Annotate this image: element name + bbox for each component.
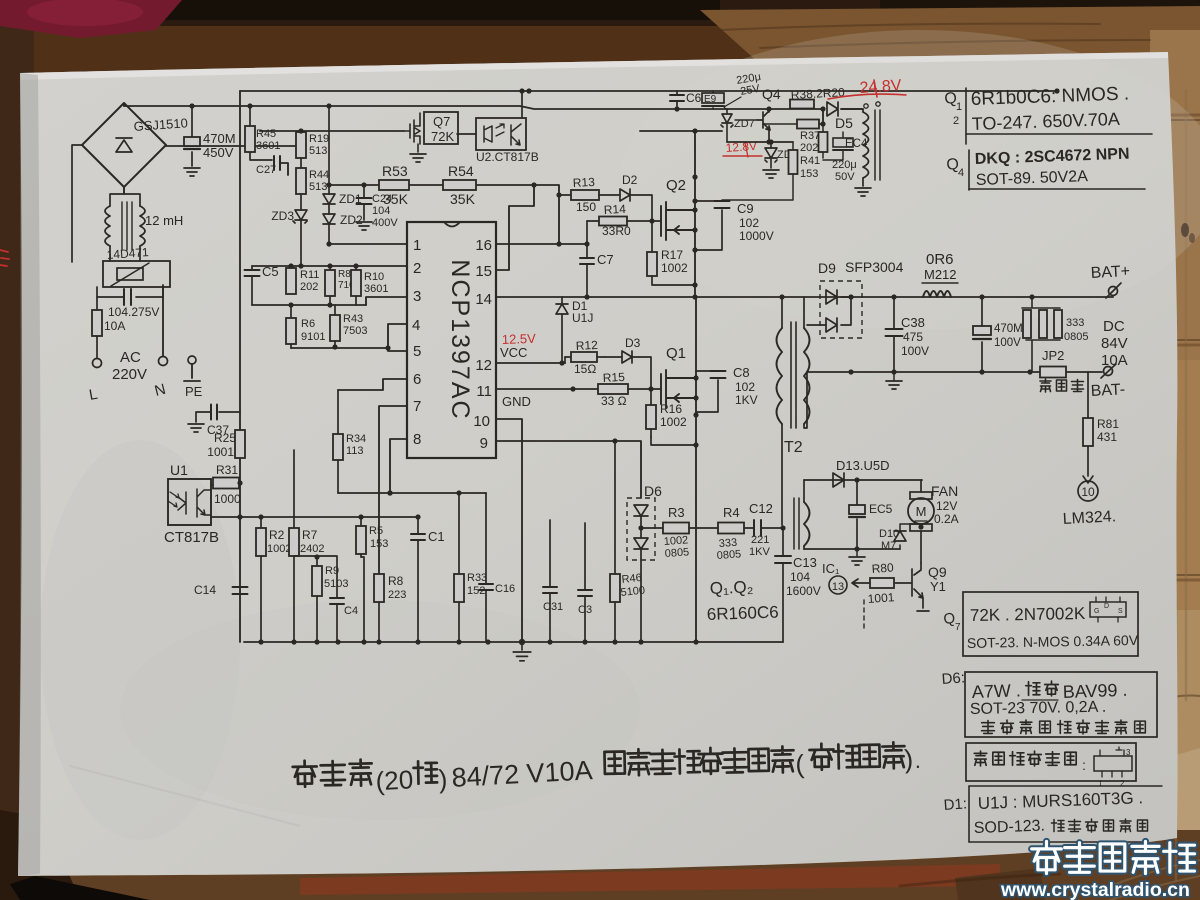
svg-text:IC₁: IC₁ — [822, 561, 840, 576]
svg-text:333: 333 — [1066, 317, 1084, 329]
resistor R19 — [300, 131, 302, 132]
svg-text:R5: R5 — [369, 525, 383, 537]
svg-text:513: 513 — [309, 145, 327, 157]
elco EC5 — [856, 480, 858, 549]
svg-text:CT817B: CT817B — [164, 529, 219, 546]
svg-text:R34: R34 — [346, 433, 366, 445]
resistor R15 — [598, 384, 628, 394]
svg-text:T2: T2 — [784, 439, 803, 456]
ground fan — [856, 549, 858, 556]
capacitor C37 with ground — [196, 412, 240, 422]
svg-text:2402: 2402 — [300, 543, 324, 555]
svg-text:D2: D2 — [622, 173, 638, 187]
svg-text:102: 102 — [739, 216, 759, 230]
svg-text:R37: R37 — [800, 130, 820, 142]
svg-text:C12: C12 — [749, 501, 773, 516]
svg-text:C14: C14 — [194, 583, 216, 597]
resistor R37 — [822, 109, 824, 132]
svg-text:0R6: 0R6 — [926, 251, 954, 268]
transformer T2 secondary — [804, 328, 810, 424]
terminal L — [93, 359, 102, 368]
resistor R6 — [290, 305, 292, 348]
wire pin5 rail y347 — [291, 347, 388, 349]
svg-text:0.2A: 0.2A — [934, 512, 959, 526]
svg-text:Y1: Y1 — [930, 579, 946, 594]
diode D1 U1J bootstrap — [561, 297, 563, 304]
svg-text:0805: 0805 — [1064, 331, 1088, 343]
svg-text:E9: E9 — [704, 94, 717, 105]
svg-text:M: M — [916, 504, 927, 519]
svg-text:202: 202 — [800, 142, 818, 154]
svg-text:14: 14 — [475, 291, 492, 308]
resistor R5 — [360, 517, 362, 557]
svg-text:202: 202 — [300, 281, 318, 293]
elco EC9 — [712, 91, 714, 109]
svg-text:VCC: VCC — [500, 345, 527, 360]
svg-text:1002: 1002 — [267, 543, 291, 555]
resistor R80 — [894, 582, 896, 584]
svg-text:6: 6 — [413, 371, 421, 388]
svg-text:U1: U1 — [170, 462, 188, 478]
svg-text:3601: 3601 — [364, 283, 388, 295]
svg-text:EC5: EC5 — [869, 502, 893, 516]
resistor R43 — [334, 305, 336, 347]
resistor R46 — [614, 441, 616, 642]
wire bridge out y147 — [166, 145, 301, 147]
capacitor C9 — [695, 201, 722, 250]
common-mode choke 12mH — [105, 206, 145, 246]
capacitor C24 with ground — [363, 185, 365, 220]
svg-text:R38.2R20: R38.2R20 — [790, 85, 845, 102]
zener ZD1 — [328, 106, 330, 194]
resistor R2 — [260, 517, 262, 642]
svg-text:BAT+: BAT+ — [1090, 263, 1130, 282]
zener ZD7 — [726, 109, 728, 114]
svg-text:13: 13 — [832, 581, 844, 593]
svg-text:10: 10 — [1081, 485, 1095, 499]
svg-text:12V: 12V — [936, 499, 957, 513]
svg-text:R54: R54 — [448, 163, 474, 179]
wire ground bus — [244, 641, 783, 643]
capacitor C1 — [417, 517, 419, 642]
svg-text:221: 221 — [751, 534, 769, 546]
resistor R44 — [300, 158, 302, 168]
svg-text:104.275V: 104.275V — [108, 305, 159, 319]
svg-text:): ) — [904, 744, 914, 774]
capacitor C6 — [676, 91, 678, 109]
svg-text:9: 9 — [480, 435, 488, 452]
svg-text:1002: 1002 — [660, 415, 687, 429]
svg-text:C13: C13 — [793, 555, 817, 570]
diode D5 — [827, 102, 838, 116]
svg-text:R45: R45 — [256, 128, 276, 140]
svg-text:12: 12 — [475, 357, 492, 374]
svg-text:1: 1 — [413, 237, 421, 254]
capacitor 470M/450V (bulk) — [191, 106, 193, 166]
svg-text:GND: GND — [502, 394, 531, 409]
capacitor C13 — [782, 528, 784, 642]
svg-text:C31: C31 — [543, 601, 563, 613]
svg-text:35K: 35K — [383, 191, 409, 207]
svg-text:D10: D10 — [879, 528, 899, 540]
svg-text:SOT-23. N-MOS 0.34A 60V: SOT-23. N-MOS 0.34A 60V — [967, 632, 1139, 651]
svg-text:431: 431 — [1097, 430, 1117, 444]
svg-text:DC: DC — [1103, 318, 1125, 335]
svg-text:1001: 1001 — [867, 590, 895, 606]
svg-text:R8: R8 — [388, 574, 404, 588]
svg-text:11: 11 — [476, 383, 492, 400]
svg-text:PE: PE — [185, 384, 203, 399]
jumper JP2 — [1040, 367, 1066, 378]
svg-text:M212: M212 — [924, 267, 957, 282]
svg-text:5: 5 — [413, 343, 421, 360]
wire Q1 drain-source — [695, 297, 697, 642]
resistor R41 — [792, 142, 794, 150]
note D6 desc hanzi — [982, 721, 995, 734]
wire fan rail top — [804, 479, 922, 481]
svg-text:S: S — [1118, 608, 1123, 615]
resistor R33 — [458, 493, 460, 642]
svg-text:C27: C27 — [256, 164, 276, 176]
svg-text:153: 153 — [370, 538, 388, 550]
ground below C38 — [893, 372, 895, 380]
svg-text:Q7: Q7 — [433, 114, 450, 129]
svg-text:Q4: Q4 — [762, 86, 781, 102]
svg-text:ZD7: ZD7 — [734, 118, 755, 130]
resistor R54 — [443, 180, 476, 190]
capacitor C16 — [485, 493, 487, 642]
svg-text:7: 7 — [413, 398, 421, 415]
svg-text:(20: (20 — [375, 764, 414, 796]
transformer T2 core — [791, 322, 796, 428]
svg-text:2: 2 — [413, 260, 421, 277]
svg-text:450V: 450V — [203, 145, 234, 160]
capacitor C27 — [274, 156, 280, 170]
resistor R16 — [650, 389, 652, 437]
svg-text:16: 16 — [475, 237, 492, 254]
svg-text:R46: R46 — [621, 572, 642, 586]
aux transformer winding — [863, 112, 869, 178]
svg-text:ZD3: ZD3 — [271, 209, 294, 223]
resistor R25 — [235, 430, 245, 458]
svg-text:100V: 100V — [901, 344, 929, 358]
svg-text:12.5V: 12.5V — [502, 331, 537, 347]
resistor R34 — [337, 390, 339, 493]
svg-text:C8: C8 — [733, 365, 750, 380]
svg-text:150: 150 — [576, 200, 596, 214]
svg-text:15Ω: 15Ω — [574, 362, 596, 376]
svg-text:R31: R31 — [216, 463, 238, 477]
transistor Q9 — [896, 563, 929, 611]
wire output return rail — [807, 371, 1102, 373]
transformer T2 aux winding — [804, 502, 810, 546]
svg-text:12 mH: 12 mH — [145, 213, 183, 228]
svg-text:SFP3004: SFP3004 — [845, 259, 904, 275]
svg-text:SOD-123.: SOD-123. — [974, 818, 1046, 837]
resistor R10 — [355, 266, 357, 305]
capacitor C4 — [336, 557, 338, 642]
capacitor C31 — [549, 520, 551, 642]
svg-text:Q₁.Q₂: Q₁.Q₂ — [709, 577, 753, 598]
title text — [292, 742, 921, 798]
transistor Q4 — [757, 109, 770, 142]
resistor R88 — [329, 266, 331, 305]
capacitor C5 — [251, 266, 253, 305]
node IC1 pin 13 — [829, 576, 847, 594]
svg-text:33 Ω: 33 Ω — [601, 394, 627, 408]
svg-text:R17: R17 — [661, 248, 683, 262]
svg-text:Q9: Q9 — [928, 564, 947, 580]
svg-text:R3: R3 — [668, 505, 685, 520]
svg-text:33R0: 33R0 — [602, 224, 631, 238]
svg-text:R12: R12 — [575, 338, 598, 353]
rectifier D9 SFP3004 — [820, 281, 862, 338]
elco EC4 — [822, 152, 824, 158]
svg-text:104: 104 — [790, 570, 810, 584]
resistor R45 — [250, 106, 272, 160]
svg-text:D1:: D1: — [943, 795, 967, 814]
svg-text:15: 15 — [475, 263, 492, 280]
capacitor C3 — [584, 523, 586, 642]
svg-text:R53: R53 — [382, 163, 408, 179]
svg-text:R41: R41 — [800, 155, 820, 167]
mosfet Q7 with box — [424, 112, 458, 144]
resistor R8 — [378, 574, 380, 642]
varistor 14D471 — [103, 261, 170, 287]
svg-text:JP2: JP2 — [1042, 348, 1064, 363]
svg-text:A7W .: A7W . — [971, 680, 1021, 702]
svg-text:M7: M7 — [881, 540, 896, 552]
node 10 to LM324 — [1083, 476, 1093, 483]
svg-text:D3: D3 — [625, 336, 641, 350]
svg-text:R14: R14 — [603, 202, 626, 217]
svg-text:R10: R10 — [364, 271, 384, 283]
wire mid rail — [496, 296, 1113, 298]
svg-text:R6: R6 — [301, 318, 315, 330]
fan motor M — [920, 480, 922, 492]
svg-text:D9: D9 — [818, 260, 836, 276]
wire upper rail — [124, 106, 823, 109]
svg-text:1KV: 1KV — [735, 393, 758, 407]
optocoupler U1 CT817B — [168, 479, 211, 525]
svg-text:4: 4 — [412, 317, 420, 334]
zener ZD2 — [323, 214, 335, 224]
zener ZD3 — [300, 194, 302, 210]
zener ZD4 — [770, 142, 772, 148]
svg-text:470M: 470M — [994, 323, 1023, 335]
diode D3 — [605, 356, 622, 358]
svg-text:220V: 220V — [112, 366, 147, 383]
svg-text:R25: R25 — [214, 431, 236, 445]
svg-text:400V: 400V — [372, 217, 398, 229]
svg-text:513: 513 — [309, 181, 327, 193]
ground main — [521, 642, 523, 650]
elco 470M/100V output — [981, 297, 983, 372]
svg-text:D5: D5 — [835, 115, 853, 131]
svg-text:72K: 72K — [431, 129, 454, 144]
resistor R14 — [587, 220, 599, 222]
capacitor C14 — [233, 587, 248, 594]
svg-text:84V: 84V — [1101, 335, 1128, 352]
svg-text:R15: R15 — [602, 370, 625, 385]
resistor R53 — [379, 180, 409, 190]
svg-text:1002: 1002 — [661, 261, 688, 275]
svg-text:100V: 100V — [994, 337, 1021, 349]
resistor R3 — [641, 527, 663, 529]
svg-text:0805: 0805 — [716, 548, 741, 562]
svg-text:1001: 1001 — [207, 445, 234, 459]
svg-text:AC: AC — [120, 349, 141, 366]
resistor R12 — [565, 356, 571, 358]
svg-text:8: 8 — [413, 431, 421, 448]
svg-text:C9: C9 — [737, 201, 754, 216]
svg-text:FAN: FAN — [931, 483, 958, 499]
svg-text:U2.CT817B: U2.CT817B — [476, 150, 539, 164]
wire left bus — [239, 91, 241, 642]
wire top rail — [240, 90, 1057, 92]
svg-text:0805: 0805 — [664, 546, 689, 560]
resistor R38 — [790, 100, 814, 109]
svg-text:SOT-23 70V. 0,2A .: SOT-23 70V. 0,2A . — [970, 699, 1107, 718]
svg-text:35K: 35K — [450, 191, 476, 207]
wire node y305 — [252, 304, 366, 306]
svg-text:1: 1 — [956, 101, 962, 113]
svg-text:R2: R2 — [269, 528, 285, 542]
diode D2 — [599, 194, 620, 196]
svg-text:C7: C7 — [597, 252, 614, 267]
svg-text:3: 3 — [413, 288, 421, 305]
diode D13 — [833, 473, 844, 487]
inductor 0R6 M212 — [923, 291, 951, 297]
svg-text:R19: R19 — [309, 133, 329, 145]
svg-text:C3: C3 — [578, 604, 592, 616]
svg-text:D13.U5D: D13.U5D — [836, 458, 889, 473]
svg-text:C1: C1 — [428, 529, 445, 544]
resistor R9 — [316, 557, 318, 642]
wire node y493 — [338, 492, 486, 494]
svg-text:BAT-: BAT- — [1090, 381, 1125, 400]
svg-text:1000: 1000 — [214, 492, 241, 506]
svg-text:3: 3 — [1126, 748, 1131, 757]
wire Q2 drain — [694, 131, 696, 297]
svg-text:7503: 7503 — [343, 325, 367, 337]
resistor R11 — [286, 268, 296, 294]
resistor R20 — [763, 123, 797, 125]
ic U3 NCP1397AC body — [444, 222, 460, 227]
svg-text:NCP1397AC: NCP1397AC — [446, 259, 474, 420]
X-capacitor 104/275V — [97, 287, 163, 297]
svg-text:10A: 10A — [104, 319, 125, 333]
svg-text:1600V: 1600V — [786, 584, 821, 598]
svg-text:C38: C38 — [901, 315, 925, 330]
mosfet Q1 — [661, 370, 696, 408]
resistor R4 — [689, 527, 718, 529]
resistor R13 — [559, 194, 571, 196]
red cloth top-left corner — [0, 0, 182, 38]
paper shading — [20, 52, 1168, 80]
svg-text:LM324.: LM324. — [1062, 508, 1116, 528]
svg-text:U1J: U1J — [572, 311, 593, 325]
svg-text:D: D — [1104, 603, 1109, 610]
diode D10 — [899, 545, 901, 549]
capacitor C8 — [696, 371, 718, 412]
wire emitter node y142 — [727, 141, 793, 143]
svg-text:Q2: Q2 — [666, 177, 686, 194]
watermark crystalradio — [1032, 841, 1062, 873]
svg-text:R81: R81 — [1097, 417, 1119, 431]
svg-text:www.crystalradio.cn: www.crystalradio.cn — [1000, 879, 1190, 900]
label kangtongsi — [1040, 379, 1051, 392]
svg-text:470M: 470M — [203, 131, 236, 146]
svg-text:R80: R80 — [871, 560, 894, 576]
wire fan rail bottom — [804, 548, 900, 550]
svg-text:9101: 9101 — [301, 331, 325, 343]
svg-text:14D471: 14D471 — [106, 245, 149, 262]
svg-text:2: 2 — [953, 115, 959, 127]
resistor R81 — [1087, 372, 1089, 476]
red stamp fragment left edge — [0, 250, 9, 266]
svg-text:153: 153 — [800, 168, 818, 180]
note package box — [966, 743, 1136, 781]
svg-text:10: 10 — [473, 413, 490, 430]
svg-text:72K . 2N7002K: 72K . 2N7002K — [970, 604, 1086, 625]
wire fb node y517 — [211, 516, 417, 518]
svg-text:C4: C4 — [344, 605, 358, 617]
optocoupler U2 CT817B — [476, 118, 526, 150]
svg-text:R16: R16 — [660, 402, 682, 416]
svg-text:475: 475 — [903, 330, 923, 344]
svg-text:R4: R4 — [723, 505, 740, 520]
svg-text:1000V: 1000V — [739, 229, 774, 243]
resistor R17 — [652, 221, 695, 285]
svg-text:113: 113 — [346, 445, 364, 457]
svg-text:D6: D6 — [644, 483, 662, 499]
svg-text:): ) — [438, 764, 448, 794]
capacitor C12 — [744, 527, 754, 529]
capacitor C38 — [893, 297, 895, 372]
wire R53 rail y185 — [329, 185, 559, 244]
svg-text:5100: 5100 — [620, 584, 646, 598]
wire node y557 — [294, 555, 337, 557]
svg-text:R43: R43 — [343, 313, 363, 325]
svg-text:Q1: Q1 — [666, 345, 686, 362]
transformer T2 primary — [781, 297, 783, 328]
svg-text:1KV: 1KV — [749, 546, 770, 558]
svg-text:C16: C16 — [495, 583, 515, 595]
fuse 10A — [96, 297, 98, 358]
svg-text:D6:: D6: — [941, 669, 965, 688]
svg-text:R7: R7 — [302, 528, 318, 542]
svg-text:102: 102 — [735, 380, 755, 394]
svg-text:ZD2: ZD2 — [340, 213, 363, 227]
wire gate rail y131 — [260, 130, 404, 132]
svg-text:6R160C6: 6R160C6 — [706, 603, 778, 624]
svg-text:R13: R13 — [572, 175, 595, 190]
resistor R31 — [211, 484, 213, 486]
svg-text:R11: R11 — [300, 269, 319, 281]
svg-text:7: 7 — [955, 622, 961, 633]
resistor R7 — [293, 450, 295, 642]
terminal PE — [188, 356, 196, 364]
svg-text:C6: C6 — [686, 91, 702, 105]
svg-text:G: G — [1094, 608, 1099, 615]
svg-text:R44: R44 — [309, 169, 329, 181]
capacitor C7 — [586, 244, 588, 297]
svg-text:223: 223 — [388, 589, 406, 601]
wire pin2 rail y266 — [252, 265, 407, 267]
mosfet Q2 — [661, 202, 695, 240]
svg-text:.: . — [914, 748, 921, 773]
